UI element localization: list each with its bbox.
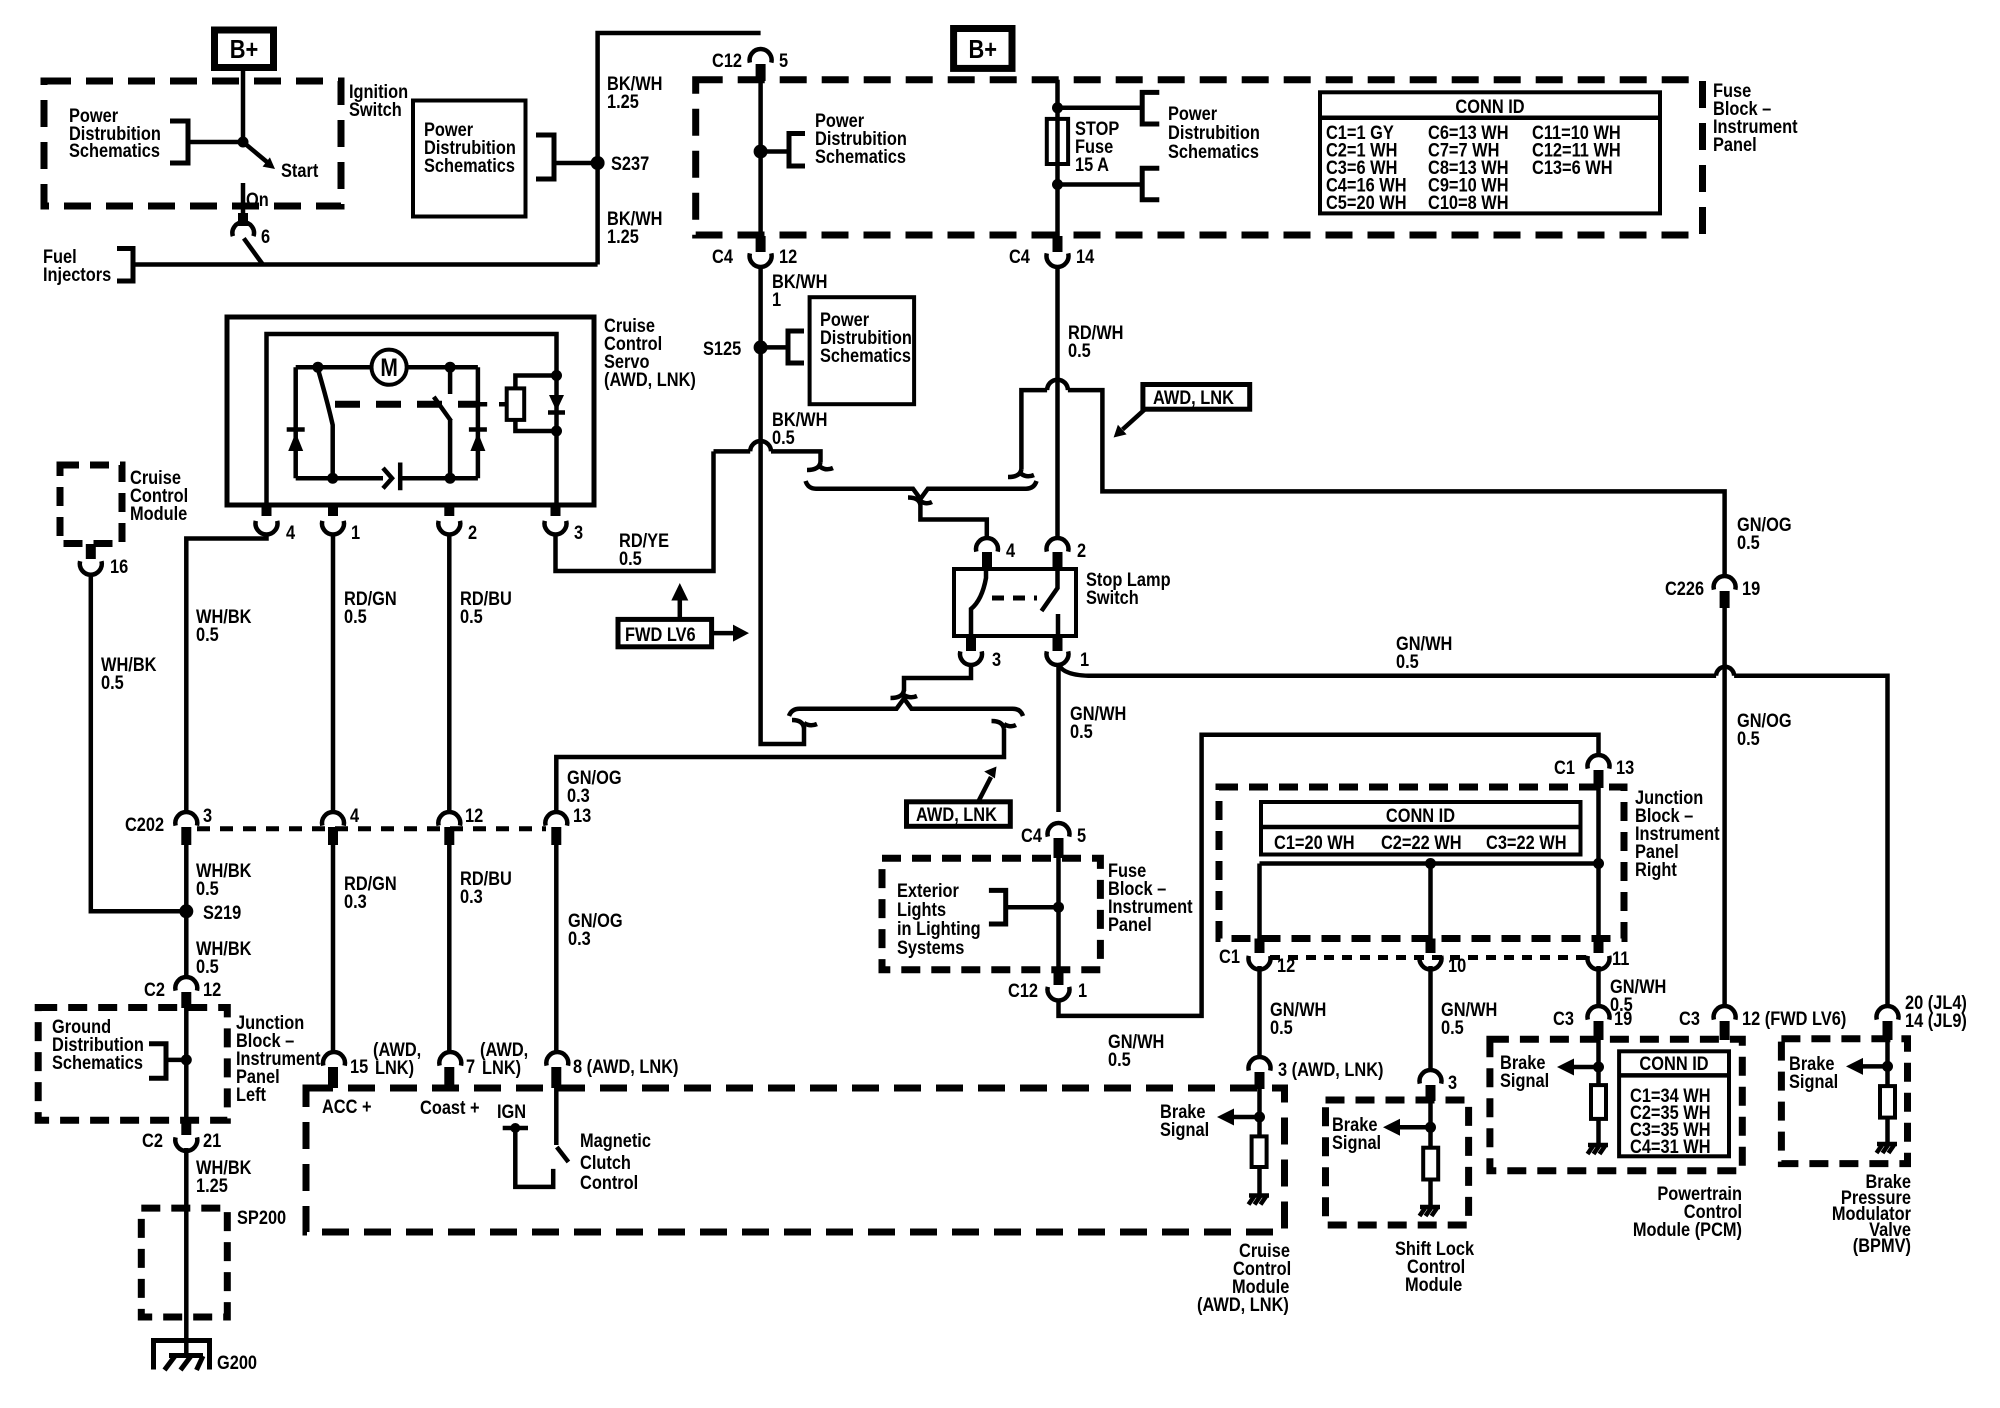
label GN/OG 0.3 (riser top) <box>567 767 622 807</box>
svg-text:G200: G200 <box>217 1352 257 1374</box>
svg-text:CONN ID: CONN ID <box>1639 1053 1708 1075</box>
arrow Brake Signal (cruise module) <box>1217 1109 1260 1126</box>
svg-text:Systems: Systems <box>897 937 964 959</box>
svg-text:Panel: Panel <box>1713 134 1757 156</box>
off-page bracket fuel injectors <box>117 249 133 282</box>
wire GN/WH junction 10 to shift lock 3 <box>1428 966 1433 1071</box>
wire bracket to ground splice <box>166 1058 186 1063</box>
label Cruise Control Module (AWD, LNK) <box>1197 1240 1291 1316</box>
off-page bracket exterior lights <box>989 890 1006 924</box>
pin stub C202-4 <box>328 827 338 845</box>
wire RD/BU C202-12 to module pin 7 <box>447 843 452 1053</box>
label BK/WH 1.25 (below S237) <box>607 208 662 248</box>
node servo bottom left <box>327 473 338 484</box>
svg-text:Control: Control <box>580 1172 638 1194</box>
off-page bracket power distribution (fuse top) <box>1142 92 1159 124</box>
node fuse bottom splice <box>1052 179 1063 190</box>
svg-text:12: 12 <box>465 805 483 827</box>
connector C12 pin 1 <box>1008 980 1087 1002</box>
label Stop Lamp Switch <box>1086 569 1171 609</box>
svg-text:C1: C1 <box>1219 946 1240 968</box>
inline connector hook (to stop lamp pin 4) <box>908 498 932 506</box>
svg-text:0.5: 0.5 <box>1396 651 1419 673</box>
svg-text:C4: C4 <box>1021 825 1042 847</box>
svg-text:C3: C3 <box>1553 1008 1574 1030</box>
label Brake Signal (shift lock) <box>1332 1114 1381 1154</box>
node motor line left <box>312 362 323 373</box>
wire RD/GN C202-4 to module pin 15 <box>331 843 336 1053</box>
switch blade servo right <box>434 367 451 478</box>
connector C3 pin 19 <box>1553 1006 1632 1029</box>
svg-text:4: 4 <box>286 522 295 544</box>
svg-text:Module: Module <box>1405 1274 1462 1296</box>
wire RD/BU servo pin2 to C202-12 <box>447 535 452 813</box>
svg-text:2: 2 <box>468 522 477 544</box>
connector C2 pin 12 <box>144 977 221 1000</box>
label RD/YE 0.5 <box>619 530 669 570</box>
svg-text:19: 19 <box>1614 1008 1632 1030</box>
connector C1 pin 12 <box>1219 946 1295 977</box>
pin stub servo 1 <box>328 505 338 516</box>
connector module pin 8 <box>546 1052 678 1077</box>
svg-text:Schematics: Schematics <box>424 155 515 177</box>
ground distribution schematics box <box>38 1008 227 1121</box>
svg-text:0.5: 0.5 <box>101 672 124 694</box>
svg-text:FWD LV6: FWD LV6 <box>625 624 696 646</box>
magnetic clutch switch blade <box>557 1147 569 1162</box>
connector junction pin 10 <box>1420 955 1467 977</box>
wire bracket to exterior lights splice <box>1006 905 1059 910</box>
svg-text:14: 14 <box>1076 246 1094 268</box>
diode servo clamp (down) <box>548 395 565 413</box>
label Powertrain Control Module (PCM) <box>1633 1183 1742 1241</box>
wire through exterior lights block <box>1056 855 1061 970</box>
svg-text:0.5: 0.5 <box>1070 721 1093 743</box>
wire hop over GN/OG (pin1 branch) <box>1716 667 1734 676</box>
svg-text:C1=20 WH: C1=20 WH <box>1274 832 1355 854</box>
label RD/BU 0.3 <box>460 868 512 908</box>
connector module pin 15 <box>323 1052 368 1077</box>
connector C202 pin 3 <box>125 805 212 836</box>
wire junction block internal bus <box>1260 787 1599 939</box>
pin stub C2-12 <box>181 992 191 1008</box>
label Power Distrubition Schematics (S237 box) <box>424 119 516 177</box>
label RD/BU 0.5 <box>460 588 512 628</box>
label Fuse Block - Instrument Panel (top) <box>1713 80 1798 156</box>
splice S237 <box>591 153 650 175</box>
arrow FWD LV6 up <box>671 583 688 619</box>
svg-text:5: 5 <box>779 50 788 72</box>
node ground splice <box>181 1054 192 1065</box>
label GN/WH 0.5 (pin 11) <box>1610 976 1666 1016</box>
wire resistor to ground (PCM) <box>1596 1119 1601 1145</box>
svg-text:11: 11 <box>1612 948 1629 970</box>
svg-text:Schematics: Schematics <box>820 345 911 367</box>
svg-text:1.25: 1.25 <box>607 91 639 113</box>
pin stub stop lamp 1 <box>1053 636 1063 651</box>
connector stop lamp pin 2 <box>1047 538 1087 561</box>
wire stop lamp pin3 to brace <box>904 665 971 691</box>
svg-text:C3: C3 <box>1679 1008 1700 1030</box>
connector C2 pin 21 <box>142 1130 221 1152</box>
label Cruise Control Servo (AWD, LNK) <box>604 315 696 391</box>
svg-text:Switch: Switch <box>1086 587 1139 609</box>
svg-text:0.3: 0.3 <box>567 785 590 807</box>
cruise control servo box <box>227 317 594 505</box>
pin stub C3-19 <box>1594 1021 1604 1040</box>
pin stub shift lock 3 <box>1426 1085 1436 1101</box>
wire GN/OG into magnetic clutch switch <box>554 1088 559 1145</box>
splice S125 <box>703 338 768 360</box>
node servo bottom right <box>445 473 456 484</box>
label AWD LNK callout (lower) <box>907 802 1011 827</box>
svg-text:C226: C226 <box>1665 578 1704 600</box>
connector module pin 7 <box>439 1052 475 1077</box>
svg-text:C2: C2 <box>142 1130 163 1152</box>
inline connector hook (RD/YE end) <box>807 462 833 470</box>
pin stub stop lamp 4 <box>982 552 992 569</box>
wire resistor to ground (BPMV) <box>1885 1118 1890 1144</box>
wire servo bottom rail <box>296 476 478 481</box>
connector stop lamp pin 4 <box>976 538 1015 561</box>
svg-text:C3=22 WH: C3=22 WH <box>1486 832 1567 854</box>
svg-text:Panel: Panel <box>1108 914 1152 936</box>
svg-text:S125: S125 <box>703 338 741 360</box>
label Exterior Lights in Lighting Systems <box>897 880 981 959</box>
svg-text:M: M <box>380 353 397 381</box>
label Junction Block - Instrument Panel Right <box>1635 787 1720 881</box>
wire cruise module brake signal branch <box>1257 1086 1262 1136</box>
pin stub module 7 <box>444 1067 454 1088</box>
inline connector hook (RD/WH tap end) <box>1008 469 1034 477</box>
svg-text:3: 3 <box>992 649 1001 671</box>
label WH/BK 0.5 (below S219) <box>196 938 251 978</box>
connector C4 pin 12 <box>712 246 797 268</box>
wire GN/WH stop lamp pin1 to BPMV <box>1059 664 1888 1006</box>
resistor PCM <box>1591 1085 1606 1119</box>
svg-text:(AWD, LNK): (AWD, LNK) <box>1197 1294 1289 1316</box>
node resistor top tap <box>551 370 562 381</box>
label Power Distrubition Schematics (stop fuse) <box>1168 103 1260 163</box>
node PCM tap <box>1593 1062 1604 1073</box>
svg-text:0.5: 0.5 <box>1270 1017 1293 1039</box>
label GN/OG 0.5 (below C226) <box>1737 710 1792 750</box>
pin stub C202-3 <box>181 827 191 845</box>
connector servo pin 1 <box>322 521 360 543</box>
label RD/WH 0.5 <box>1068 322 1123 362</box>
label BK/WH 0.5 (below S125) <box>772 409 827 449</box>
pin stub C202-12 <box>444 827 454 845</box>
wire connector 6 to fuel injector feed <box>244 238 263 264</box>
svg-text:Start: Start <box>281 160 318 182</box>
svg-text:15: 15 <box>350 1056 368 1078</box>
svg-text:Schematics: Schematics <box>1168 141 1259 163</box>
switch blade servo left <box>318 369 333 478</box>
svg-text:Left: Left <box>236 1084 266 1106</box>
wire fuse bottom splice to bracket <box>1058 182 1143 187</box>
label WH/BK 0.5 (pin4) <box>196 606 251 646</box>
wire GN/OG C226 down to C3-12 <box>1722 605 1727 1006</box>
svg-text:S219: S219 <box>203 902 241 924</box>
wire fuel injectors to S237 riser <box>133 262 598 267</box>
arrow Brake Signal (BPMV) <box>1846 1058 1888 1075</box>
wire RD/YE servo pin3 to splice riser <box>556 451 714 571</box>
connector junction pin 11 <box>1588 948 1630 970</box>
wire splice to bracket <box>761 149 789 154</box>
pin stub C226-19 <box>1720 591 1730 608</box>
resistor cruise module <box>1252 1136 1267 1167</box>
svg-text:C2: C2 <box>144 979 165 1001</box>
label Junction Block - Instrument Panel Left <box>236 1012 321 1106</box>
svg-text:6: 6 <box>261 226 270 248</box>
wire RD/WH tap crossover <box>1021 390 1716 491</box>
wire GN/OG to C226 <box>1716 491 1725 576</box>
cruise control module box (pin 16) <box>60 465 122 544</box>
ground (BPMV) <box>1877 1144 1898 1153</box>
wire WH/BK servo pin4 to C202-3 <box>186 535 266 813</box>
connector C4 pin 14 <box>1009 246 1094 268</box>
splice brace upper (option split) <box>806 481 1037 499</box>
wire servo inner loop pin4 to pin3 <box>267 334 557 505</box>
inline connector hook (GN/OG branch end) <box>992 721 1017 729</box>
label Brake Signal (cruise module) <box>1160 1101 1209 1141</box>
wire GN/WH C12-1 loop to C1-13 <box>1059 735 1599 1016</box>
off-page bracket power distribution (ignition) <box>170 121 188 163</box>
arrow FWD LV6 right <box>712 625 749 642</box>
ground G200 <box>154 1341 258 1374</box>
one-way clutch symbol (chevron and plate) <box>383 463 400 491</box>
label GN/WH 0.5 (C12-1) <box>1108 1031 1164 1071</box>
node shift lock tap <box>1425 1122 1436 1133</box>
wire resistor to ground (shift lock) <box>1428 1180 1433 1208</box>
svg-text:B+: B+ <box>230 35 259 64</box>
node splice to bracket (fuse block C12) <box>754 145 768 159</box>
svg-text:13: 13 <box>573 805 591 827</box>
connector C226 pin 19 <box>1665 576 1760 599</box>
svg-text:C1: C1 <box>1554 757 1575 779</box>
off-page bracket power distribution (fuse bottom) <box>1142 168 1159 200</box>
svg-text:21: 21 <box>203 1130 221 1152</box>
connector C12 pin 5 <box>712 49 788 71</box>
value labels conn id rows (fuse block top) <box>1326 122 1621 214</box>
pin stub module 8 <box>551 1067 561 1088</box>
svg-text:0.3: 0.3 <box>344 891 367 913</box>
svg-text:C2=22 WH: C2=22 WH <box>1381 832 1462 854</box>
inline connector hook (BK/WH end) <box>792 720 817 728</box>
svg-text:C13=6 WH: C13=6 WH <box>1532 157 1613 179</box>
svg-text:AWD, LNK: AWD, LNK <box>1153 387 1234 409</box>
svg-text:C12: C12 <box>712 50 742 72</box>
wire S125 to bracket <box>761 345 788 350</box>
svg-text:16: 16 <box>110 556 128 578</box>
connector C4 pin 5 <box>1021 823 1086 846</box>
pin stub C202-13 <box>551 827 561 845</box>
svg-text:Signal: Signal <box>1160 1119 1209 1141</box>
label Brake Signal (PCM) <box>1500 1052 1549 1092</box>
wire motor loop left side <box>293 367 298 478</box>
pin stub servo 3 <box>551 505 561 516</box>
svg-text:3: 3 <box>203 805 212 827</box>
svg-text:0.5: 0.5 <box>196 956 219 978</box>
svg-text:12: 12 <box>203 979 221 1001</box>
value labels conn id row (junction block right) <box>1274 832 1567 854</box>
label WH/BK 0.5 (pin 16 wire) <box>101 654 156 694</box>
pin stub servo 2 <box>444 505 454 516</box>
label GN/WH 0.5 (shift lock) <box>1441 999 1497 1039</box>
svg-text:1: 1 <box>772 289 781 311</box>
fuse block instrument panel box (top) <box>696 80 1703 235</box>
pin stub C4-14 <box>1053 236 1063 252</box>
svg-text:0.5: 0.5 <box>1441 1017 1464 1039</box>
svg-text:0.5: 0.5 <box>460 606 483 628</box>
svg-text:4: 4 <box>350 805 359 827</box>
power distribution schematics box (S125) <box>810 297 915 404</box>
ground (shift lock) <box>1420 1207 1441 1216</box>
svg-text:LNK): LNK) <box>375 1057 414 1079</box>
conn id table (junction block right) <box>1261 802 1581 855</box>
label GN/OG 0.5 (right) <box>1737 514 1792 554</box>
svg-text:0.5: 0.5 <box>619 548 642 570</box>
svg-text:0.3: 0.3 <box>568 928 591 950</box>
svg-text:C12: C12 <box>1008 980 1038 1002</box>
connector C1 pin 13 <box>1554 755 1634 778</box>
svg-text:0.5: 0.5 <box>1737 728 1760 750</box>
svg-text:3: 3 <box>1448 1072 1457 1094</box>
svg-text:2: 2 <box>1077 540 1086 562</box>
label Magnetic Clutch Control <box>580 1130 651 1194</box>
pin stub cruise module 3 <box>1255 1072 1265 1089</box>
svg-text:C4: C4 <box>1009 246 1030 268</box>
label FWD LV6 callout box <box>618 619 712 646</box>
label Fuse Block - Instrument Panel (exterior lights) <box>1108 860 1193 936</box>
svg-text:Module: Module <box>130 503 187 525</box>
label Power Distrubition Schematics (S125 box) <box>820 309 912 367</box>
svg-text:LNK): LNK) <box>482 1057 521 1079</box>
svg-text:3 (AWD, LNK): 3 (AWD, LNK) <box>1278 1059 1384 1081</box>
diode servo right (up) <box>469 430 487 452</box>
ignition switch blade (Start) <box>243 142 275 169</box>
wire RD/WH C4-14 down to stop lamp pin 2 <box>1055 266 1060 538</box>
svg-text:7: 7 <box>466 1056 475 1078</box>
svg-text:Signal: Signal <box>1789 1071 1838 1093</box>
svg-text:19: 19 <box>1742 578 1760 600</box>
wire PCM brake branch <box>1596 1037 1601 1085</box>
svg-text:3: 3 <box>574 522 583 544</box>
connector cruise module pin 3 (AWD, LNK) <box>1249 1057 1384 1080</box>
node resistor bottom tap <box>551 426 562 437</box>
svg-text:13: 13 <box>1616 757 1634 779</box>
fuse STOP 15A <box>1047 118 1119 176</box>
pin stub module 16 <box>86 544 96 559</box>
pin stub C1-12 <box>1255 939 1265 954</box>
pin stub stop lamp 2 <box>1053 552 1063 569</box>
stop lamp switch box <box>954 569 1076 636</box>
svg-text:1: 1 <box>1078 980 1087 1002</box>
svg-text:CONN ID: CONN ID <box>1386 805 1455 827</box>
wire bracket to ignition junction <box>188 140 243 145</box>
wire GN/OG C202-13 to module pin 8 <box>554 843 559 1053</box>
svg-text:8 (AWD, LNK): 8 (AWD, LNK) <box>573 1056 679 1078</box>
pin stub C2-21 <box>181 1120 191 1135</box>
svg-text:(AWD, LNK): (AWD, LNK) <box>604 369 696 391</box>
label GN/OG 0.3 (lower) <box>568 910 623 950</box>
svg-text:CONN ID: CONN ID <box>1455 96 1524 118</box>
svg-text:1.25: 1.25 <box>196 1175 228 1197</box>
svg-text:On: On <box>246 189 269 211</box>
svg-text:C4=31 WH: C4=31 WH <box>1630 1136 1711 1158</box>
pin stub C3-12 <box>1720 1021 1730 1040</box>
pin stub BPMV <box>1883 1021 1893 1040</box>
svg-text:Signal: Signal <box>1332 1132 1381 1154</box>
node ignition junction <box>238 137 249 148</box>
label (AWD, LNK) pin 15 <box>373 1039 421 1079</box>
label Ignition Switch <box>349 81 408 121</box>
wire through junction block left <box>184 1006 189 1121</box>
svg-text:S237: S237 <box>611 153 649 175</box>
powertrain control module box <box>1490 1039 1742 1171</box>
wire fuse top splice to bracket <box>1058 106 1143 111</box>
connector C202 pin 4 <box>322 805 359 827</box>
motor M1 top feed wire <box>296 365 478 370</box>
value labels conn id rows (PCM) <box>1630 1085 1711 1158</box>
connector stop lamp pin 3 <box>960 649 1001 671</box>
conn id table (PCM) <box>1619 1051 1729 1156</box>
wire shift lock brake branch <box>1428 1098 1433 1148</box>
svg-text:Signal: Signal <box>1500 1070 1549 1092</box>
svg-text:Schematics: Schematics <box>815 146 906 168</box>
svg-text:Switch: Switch <box>349 99 402 121</box>
wire B+ to ignition switch <box>241 68 246 143</box>
connector shift lock pin 3 <box>1420 1070 1458 1093</box>
pin stub stop lamp 3 <box>966 636 976 651</box>
wire WH/BK C2-21 to G200 <box>184 1148 189 1356</box>
stop lamp switch blade right (open) <box>1042 569 1059 636</box>
power distribution schematics box (S237) <box>413 101 526 217</box>
svg-text:0.5: 0.5 <box>1068 340 1091 362</box>
wire RD/YE crossover to inline connector <box>714 451 821 462</box>
svg-text:Coast +: Coast + <box>420 1097 480 1119</box>
svg-text:IGN: IGN <box>497 1101 526 1123</box>
svg-text:ACC +: ACC + <box>322 1096 372 1118</box>
conn id table (fuse block top) <box>1320 92 1660 213</box>
wire WH/BK module 16 to S219 <box>91 574 187 911</box>
svg-text:0.5: 0.5 <box>1737 532 1760 554</box>
node exterior lights splice <box>1053 902 1064 913</box>
cruise control module box (AWD, LNK) <box>306 1088 1285 1232</box>
ground (PCM) <box>1588 1145 1609 1154</box>
arrow Brake Signal (PCM) <box>1557 1059 1599 1076</box>
svg-text:B+: B+ <box>969 35 998 64</box>
svg-text:14 (JL9): 14 (JL9) <box>1905 1010 1967 1032</box>
label BK/WH 1.25 (above S237) <box>607 73 662 113</box>
svg-text:0.3: 0.3 <box>460 886 483 908</box>
svg-text:0.5: 0.5 <box>772 427 795 449</box>
svg-text:C4: C4 <box>712 246 733 268</box>
connector C3 pin 12 (FWD LV6) <box>1679 1006 1846 1029</box>
svg-text:0.5: 0.5 <box>344 606 367 628</box>
off-page bracket S237 feed <box>536 135 554 179</box>
label Brake Signal (BPMV) <box>1789 1053 1838 1093</box>
wire bracket to splice S237 <box>554 161 598 166</box>
node cruise module tap <box>1254 1112 1265 1123</box>
fuse block instrument panel box (exterior lights) <box>882 858 1100 970</box>
label RD/GN 0.3 <box>344 873 397 913</box>
connector module pin 16 <box>80 556 128 578</box>
splice S219 <box>179 902 241 924</box>
wire BK/WH S237 riser <box>598 33 761 265</box>
label GN/WH 0.5 (pin1 branch) <box>1396 633 1452 673</box>
dashed mechanical link servo <box>335 401 477 408</box>
